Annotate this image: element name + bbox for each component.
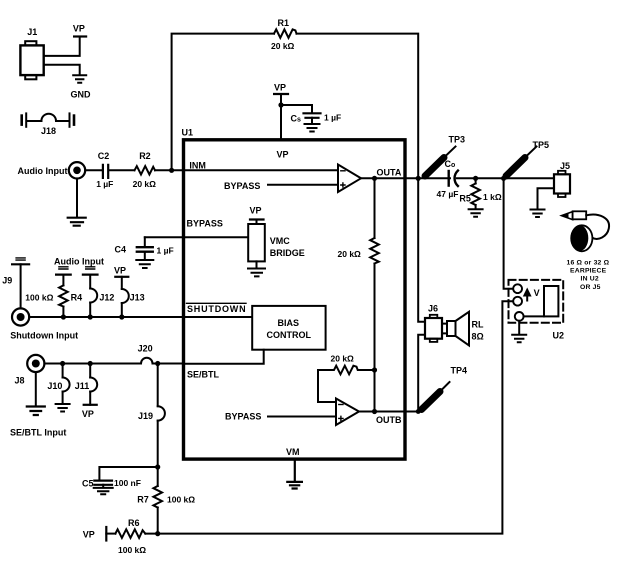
Audio Input jack (top-left) xyxy=(18,162,86,178)
resistor 20k (horizontal, internal) xyxy=(318,353,375,374)
svg-text:C2: C2 xyxy=(98,151,110,161)
pin SHUTDOWN xyxy=(184,303,253,317)
connector J6 xyxy=(425,303,442,342)
wire speaker to OUTB xyxy=(418,335,425,412)
ground (R5) xyxy=(469,205,483,217)
jumper J12 xyxy=(90,289,114,318)
terminal J9 (inverted ground) xyxy=(2,258,29,309)
svg-text:VP: VP xyxy=(250,206,262,216)
ground (J8) xyxy=(27,407,45,416)
svg-text:1 kΩ: 1 kΩ xyxy=(483,192,502,202)
wire shutdown row xyxy=(29,316,183,318)
svg-text:100 kΩ: 100 kΩ xyxy=(25,292,53,302)
wire R1 feedback left leg xyxy=(172,34,274,171)
resistor R1 xyxy=(271,18,297,51)
svg-text:VP: VP xyxy=(83,529,95,539)
svg-text:47 µF: 47 µF xyxy=(437,189,459,199)
svg-text:TP4: TP4 xyxy=(451,365,468,375)
node J12 xyxy=(88,314,93,319)
svg-text:1 µF: 1 µF xyxy=(324,113,341,123)
svg-text:TP3: TP3 xyxy=(449,134,466,144)
node VP/Cs junction xyxy=(278,102,283,107)
connector J5 xyxy=(554,161,570,197)
capacitor C2 xyxy=(96,151,113,189)
resistor R5 xyxy=(459,178,501,205)
IC U1 box xyxy=(182,127,406,459)
jumper J20 xyxy=(138,343,184,363)
probe TP3 xyxy=(425,134,465,176)
resistor R6 xyxy=(106,518,146,555)
pin BYPASS (to op-amp A) xyxy=(224,181,338,191)
earpiece plug icon xyxy=(562,211,610,239)
pin BYPASS (to op-amp B) xyxy=(225,412,336,422)
svg-text:J18: J18 xyxy=(41,126,56,136)
node R5 xyxy=(473,176,478,181)
jumper J10 xyxy=(47,364,69,404)
pin INM xyxy=(184,160,339,170)
svg-text:OR J5: OR J5 xyxy=(580,284,601,291)
svg-text:C5: C5 xyxy=(82,479,94,489)
svg-text:VP: VP xyxy=(82,409,94,419)
power VP (J1) xyxy=(73,24,86,37)
probe TP4 xyxy=(422,365,468,409)
svg-text:Shutdown Input: Shutdown Input xyxy=(10,331,78,341)
wire 20k down to junction xyxy=(374,264,376,412)
svg-text:J9: J9 xyxy=(2,276,12,286)
SE/BTL Input jack J8 xyxy=(10,355,66,437)
wire jack to ground xyxy=(76,179,78,218)
svg-text:Audio Input: Audio Input xyxy=(18,166,68,176)
resistor 20k (vertical, internal) xyxy=(338,238,379,264)
svg-text:SE/BTL: SE/BTL xyxy=(187,370,220,380)
svg-text:BYPASS: BYPASS xyxy=(225,412,261,422)
wire VP to U1 top xyxy=(280,94,282,140)
resistor R7 xyxy=(137,486,195,534)
wire R2 to INM pin xyxy=(155,169,184,171)
svg-text:RL: RL xyxy=(472,319,484,329)
svg-text:J12: J12 xyxy=(99,292,114,302)
ground (VM) xyxy=(287,459,302,488)
svg-text:R1: R1 xyxy=(278,18,290,28)
wire to Cs xyxy=(281,105,312,113)
wire OUTA node to U2 pin1 xyxy=(504,178,513,288)
ground (audio jack) xyxy=(68,218,86,226)
svg-text:R4: R4 xyxy=(71,292,83,302)
node R7/R6 xyxy=(155,531,160,536)
svg-text:16 Ω or 32 Ω: 16 Ω or 32 Ω xyxy=(567,259,610,266)
svg-text:20 kΩ: 20 kΩ xyxy=(133,179,157,189)
svg-text:TP5: TP5 xyxy=(533,140,550,150)
svg-text:8Ω: 8Ω xyxy=(472,331,484,341)
wire J8 to ground xyxy=(35,372,37,406)
svg-text:Audio Input: Audio Input xyxy=(54,256,104,266)
svg-text:BRIDGE: BRIDGE xyxy=(270,248,305,258)
terminal (above R4) xyxy=(59,267,68,269)
node 20k junction xyxy=(372,367,377,372)
svg-text:J1: J1 xyxy=(27,27,37,37)
svg-text:R2: R2 xyxy=(139,151,151,161)
capacitor Co (polarized) xyxy=(437,159,459,199)
svg-text:J10: J10 xyxy=(47,381,62,391)
ground (J5) xyxy=(531,210,545,218)
svg-text:R6: R6 xyxy=(128,518,140,528)
wire R1 right leg to OUTA xyxy=(297,34,419,179)
svg-text:VM: VM xyxy=(286,447,300,457)
power VP (R6) xyxy=(83,527,107,541)
wire C5 stub xyxy=(99,467,157,480)
svg-text:J19: J19 xyxy=(138,411,153,421)
svg-text:VP: VP xyxy=(114,265,126,275)
svg-text:V: V xyxy=(534,288,540,298)
wire bottom row to U2 xyxy=(145,301,513,533)
svg-text:EARPIECE: EARPIECE xyxy=(570,268,607,275)
svg-text:IN U2: IN U2 xyxy=(581,276,599,283)
op-amp B xyxy=(336,399,359,426)
node C5 xyxy=(155,464,160,469)
svg-text:SE/BTL Input: SE/BTL Input xyxy=(10,427,66,437)
ground (C5) xyxy=(94,485,113,495)
node INM/R1 junction xyxy=(169,168,174,173)
ground (C4) xyxy=(136,252,153,268)
svg-text:R5: R5 xyxy=(459,194,471,204)
svg-text:BIAS: BIAS xyxy=(278,318,300,328)
wire J1 to VP xyxy=(44,37,80,56)
ground (J10) xyxy=(56,404,70,412)
svg-text:VP: VP xyxy=(73,24,85,34)
jumper J11 xyxy=(75,364,98,405)
wire Co to junction xyxy=(457,177,554,179)
svg-text:20 kΩ: 20 kΩ xyxy=(338,249,362,259)
capacitor C5 xyxy=(82,478,141,489)
Shutdown Input jack xyxy=(10,308,78,340)
svg-text:BYPASS: BYPASS xyxy=(224,181,260,191)
svg-text:VP: VP xyxy=(277,149,289,159)
svg-text:GND: GND xyxy=(71,90,92,100)
svg-text:100 kΩ: 100 kΩ xyxy=(118,545,146,555)
ground GND (J1) xyxy=(71,75,92,99)
wire op-amp B output / pin OUTB xyxy=(359,412,418,426)
wire BIAS to SE/BTL pin xyxy=(184,350,264,364)
earpiece xyxy=(567,225,610,291)
power VP (J13) xyxy=(114,265,128,289)
block BIAS CONTROL xyxy=(252,306,325,350)
svg-text:VP: VP xyxy=(274,83,286,93)
jumper J13 xyxy=(122,289,145,317)
power VP (Cs) xyxy=(274,83,288,95)
resistor R4 xyxy=(25,285,82,317)
node J20 xyxy=(155,361,160,366)
svg-text:INM: INM xyxy=(189,160,206,170)
ground (Cs) xyxy=(305,118,320,132)
node OUTB junction xyxy=(372,409,377,414)
wire jack to C2 xyxy=(85,169,102,171)
power VP (J11, below) xyxy=(82,405,97,419)
node J13 xyxy=(119,314,124,319)
node OUTA/speaker xyxy=(416,176,421,181)
power VP (VMC) xyxy=(250,206,264,225)
svg-text:J20: J20 xyxy=(138,343,153,353)
capacitor Cs xyxy=(291,113,342,124)
node TP5/J5 xyxy=(501,176,506,181)
svg-text:OUTA: OUTA xyxy=(377,167,402,177)
svg-text:BYPASS: BYPASS xyxy=(187,219,223,229)
node R4 xyxy=(61,314,66,319)
svg-text:J11: J11 xyxy=(75,381,90,391)
wire 20k to op-amp B minus xyxy=(318,370,336,402)
resistor R2 xyxy=(133,151,157,189)
ground (VMC) xyxy=(248,261,265,276)
svg-text:100 nF: 100 nF xyxy=(114,478,141,488)
svg-text:100 kΩ: 100 kΩ xyxy=(167,495,195,505)
svg-text:J8: J8 xyxy=(15,375,25,385)
wire op-amp A output / pin OUTA xyxy=(361,167,419,178)
svg-text:R7: R7 xyxy=(137,495,149,505)
node J11 xyxy=(88,361,93,366)
jumper J19 xyxy=(138,406,165,421)
connector J1 xyxy=(20,27,43,79)
node J10 xyxy=(60,361,65,366)
svg-text:J6: J6 xyxy=(428,303,438,313)
terminal (above J12) xyxy=(86,267,95,269)
svg-text:CONTROL: CONTROL xyxy=(267,330,312,340)
node OUTA junction xyxy=(372,176,377,181)
pin BYPASS (left, C4) xyxy=(145,219,248,238)
svg-text:1 µF: 1 µF xyxy=(96,179,113,189)
svg-text:20 kΩ: 20 kΩ xyxy=(331,353,355,363)
svg-text:C4: C4 xyxy=(115,244,127,254)
node OUTB/TP4 xyxy=(416,409,421,414)
wire J19 to C5 node xyxy=(157,421,159,486)
wire OUTA down to 20k xyxy=(374,178,376,238)
wire J1 to GND xyxy=(44,65,80,75)
svg-text:1 µF: 1 µF xyxy=(157,245,174,255)
block VMC BRIDGE xyxy=(248,224,305,261)
ground (U2) xyxy=(512,321,526,343)
wire C2 to R2 xyxy=(109,169,135,171)
wire OUTA down to speaker xyxy=(418,178,425,321)
svg-text:SHUTDOWN: SHUTDOWN xyxy=(187,304,246,314)
wire OUTA to Co xyxy=(418,177,450,179)
svg-text:OUTB: OUTB xyxy=(376,415,402,425)
jumper J18 xyxy=(22,113,74,135)
speaker RL xyxy=(442,312,484,346)
switch block U2 xyxy=(509,280,565,340)
capacitor C4 xyxy=(115,237,174,255)
probe TP5 xyxy=(506,140,549,176)
svg-text:J5: J5 xyxy=(560,161,570,171)
wire down from J20 xyxy=(157,364,159,407)
wire SE/BTL row xyxy=(44,363,141,365)
svg-text:J13: J13 xyxy=(130,292,145,302)
svg-text:U2: U2 xyxy=(553,330,565,340)
svg-text:U1: U1 xyxy=(182,127,194,137)
wire J5 to ground xyxy=(538,188,555,209)
svg-text:20 kΩ: 20 kΩ xyxy=(271,41,295,51)
op-amp A xyxy=(338,165,361,193)
svg-text:VMC: VMC xyxy=(270,236,291,246)
